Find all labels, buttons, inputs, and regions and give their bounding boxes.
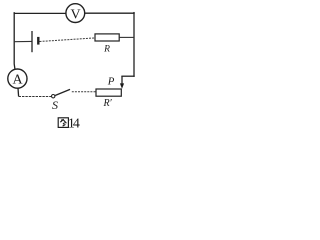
ammeter U-A [8, 69, 27, 88]
wire right vertical [133, 13, 135, 77]
svg-text:S: S [52, 98, 58, 112]
lead switch-to-rheostat [72, 91, 96, 93]
switch S blade [55, 89, 70, 95]
svg-text:V: V [70, 8, 80, 23]
battery lead left [14, 40, 32, 42]
rheostat R' box [96, 89, 121, 109]
wire top-right (voltmeter to frame corner) [85, 12, 134, 14]
svg-text:R: R [103, 44, 110, 54]
caption glyph 图 (drawn) [58, 118, 68, 128]
wire left vertical [13, 13, 16, 70]
svg-text:4: 4 [73, 116, 80, 131]
R-to-right-wire lead [119, 36, 134, 38]
wire top-left (frame corner to voltmeter) [14, 12, 66, 14]
svg-text:A: A [12, 72, 23, 87]
battery cell [32, 31, 38, 52]
ammeter bottom lead [17, 88, 20, 96]
svg-text:P: P [107, 76, 115, 88]
bottom wire to switch [19, 96, 52, 98]
voltmeter U-V [66, 4, 85, 23]
switch S pivot [52, 95, 55, 98]
battery-to-R lead [40, 38, 96, 42]
svg-text:R′: R′ [102, 98, 112, 109]
slider jog wire [122, 75, 134, 77]
slider arrow P [120, 76, 124, 89]
resistor R [95, 34, 119, 54]
